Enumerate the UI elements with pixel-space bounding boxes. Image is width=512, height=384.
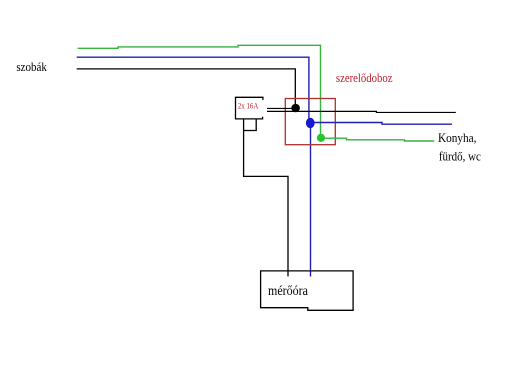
wire: green phase from szobák to junction (with jogs), down to green node bbox=[78, 45, 321, 138]
wire: black phase from szobák to junction, down to black node bbox=[77, 69, 296, 108]
wire: fuse output U loop bbox=[244, 119, 257, 131]
node: black junction dot bbox=[291, 104, 300, 113]
wire: lower black line from fuse through box to right bbox=[267, 111, 456, 112]
node: blue junction dot bbox=[306, 118, 315, 128]
wire: blue neutral from szobák to junction, down through blue node to meter bbox=[77, 57, 311, 276]
svg-text:mérőóra: mérőóra bbox=[268, 283, 308, 298]
meter box (mérőóra) outline bbox=[261, 271, 354, 310]
wire: from fuse down, right, down to meter bbox=[244, 119, 288, 276]
wire: upper black pair from fuse to black node bbox=[267, 107, 296, 109]
svg-text:Konyha,: Konyha, bbox=[438, 130, 477, 145]
svg-text:szerelődoboz: szerelődoboz bbox=[336, 71, 393, 85]
node: green junction dot bbox=[317, 134, 325, 142]
wire: green line from green node to right (Konyha) bbox=[321, 138, 434, 141]
svg-text:fürdő, wc: fürdő, wc bbox=[439, 149, 481, 164]
svg-text:szobák: szobák bbox=[16, 59, 47, 74]
svg-text:2x 16A: 2x 16A bbox=[238, 101, 259, 110]
wire: blue line from blue node to right bbox=[310, 123, 452, 125]
fuse F1 box outline (2x 16A) bbox=[236, 97, 263, 119]
junction box (szerelődoboz) red outline bbox=[285, 99, 335, 145]
